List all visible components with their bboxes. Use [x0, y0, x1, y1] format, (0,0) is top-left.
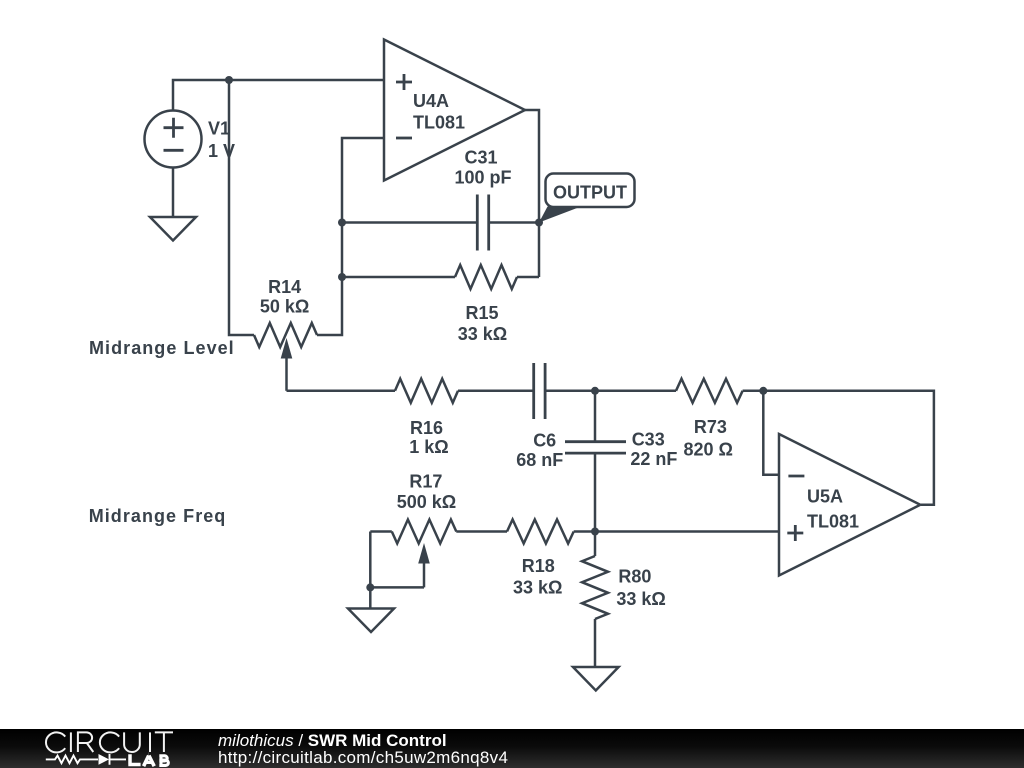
wire [594, 391, 597, 441]
label R80 value [616, 566, 665, 609]
logo resistor squiggle [46, 756, 98, 764]
svg-text:R16: R16 [410, 418, 443, 438]
ground [348, 609, 394, 633]
svg-text:R17: R17 [409, 472, 442, 492]
label C31 value [454, 148, 511, 188]
label Midrange Freq [89, 506, 227, 526]
wire [369, 587, 372, 608]
label R15 value [458, 303, 507, 344]
wire [763, 391, 778, 475]
svg-text:OUTPUT: OUTPUT [553, 183, 627, 203]
label U5A TL081 [807, 487, 859, 532]
wire [342, 221, 476, 224]
label C33 value [630, 429, 677, 469]
label R18 value [513, 556, 562, 598]
wire [743, 391, 934, 505]
svg-text:33 kΩ: 33 kΩ [616, 589, 665, 609]
logo CircuitLab [44, 729, 234, 768]
resistor R73 [676, 379, 743, 403]
svg-text:50 kΩ: 50 kΩ [260, 296, 309, 316]
wire [525, 110, 539, 277]
wire [287, 390, 396, 393]
svg-text:V1: V1 [208, 119, 230, 139]
svg-text:C33: C33 [632, 429, 665, 449]
logo word CIRCUIT [46, 732, 173, 752]
capacitor C33 [565, 442, 626, 453]
svg-text:33 kΩ: 33 kΩ [458, 324, 507, 344]
label R14 value [260, 277, 309, 317]
svg-text:68 nF: 68 nF [516, 450, 563, 470]
wire [456, 530, 507, 533]
ground [573, 667, 619, 691]
wire [229, 80, 254, 335]
svg-text:500 kΩ: 500 kΩ [397, 492, 456, 512]
label V1 value [208, 119, 235, 161]
wire [489, 221, 539, 224]
node junction [338, 219, 346, 227]
label C6 value [516, 431, 563, 470]
svg-text:U5A: U5A [807, 487, 843, 507]
svg-text:R14: R14 [268, 277, 301, 297]
label U4A TL081 [413, 91, 465, 133]
svg-text:100 pF: 100 pF [454, 168, 511, 188]
node junction [338, 273, 346, 281]
node junction at V+ wire [225, 76, 233, 84]
svg-text:R18: R18 [522, 556, 555, 576]
svg-text:TL081: TL081 [807, 512, 859, 532]
op-amp U5A [779, 434, 920, 576]
potentiometer R17 [392, 520, 457, 588]
svg-text:1 V: 1 V [208, 141, 235, 161]
svg-text:Midrange Freq: Midrange Freq [89, 506, 227, 526]
wire [595, 530, 778, 533]
svg-text:22 nF: 22 nF [630, 449, 677, 469]
svg-text:C6: C6 [533, 431, 556, 451]
svg-text:Midrange Level: Midrange Level [89, 338, 235, 358]
resistor R18 [507, 520, 595, 544]
logo word LAB [128, 754, 168, 766]
resistor R16 [395, 379, 533, 403]
svg-text:TL081: TL081 [413, 113, 465, 133]
svg-text:R80: R80 [618, 566, 651, 586]
ground [150, 217, 196, 241]
svg-text:C31: C31 [464, 148, 497, 168]
label R17 value [397, 472, 456, 513]
capacitor C31 [477, 195, 488, 251]
capacitor C6 [534, 363, 545, 419]
wire [173, 80, 384, 111]
svg-text:R15: R15 [465, 303, 498, 323]
wire [370, 530, 392, 533]
svg-text:820 Ω: 820 Ω [683, 439, 732, 459]
node junction [759, 387, 767, 395]
svg-text:33 kΩ: 33 kΩ [513, 577, 562, 597]
label R73 value [683, 417, 732, 459]
wire [172, 168, 175, 218]
op-amp U4A [384, 40, 525, 181]
label Midrange Level [89, 338, 235, 358]
resistor R80 [582, 532, 608, 668]
svg-text:1 kΩ: 1 kΩ [409, 437, 448, 457]
label R16 value [409, 418, 448, 457]
wire [317, 138, 384, 335]
wire [594, 454, 597, 531]
footer bar [0, 729, 1024, 768]
node junction [591, 528, 599, 536]
wire [546, 390, 676, 393]
resistor R15 [342, 265, 539, 289]
logo diode [99, 754, 110, 765]
node OUTPUT junction [535, 219, 543, 227]
footer credit text [218, 732, 508, 766]
node junction [591, 387, 599, 395]
wire [370, 532, 424, 588]
svg-text:R73: R73 [694, 417, 727, 437]
potentiometer R14 [254, 323, 317, 391]
voltage source V1 [145, 111, 202, 168]
svg-text:U4A: U4A [413, 91, 449, 111]
node OUTPUT flag [539, 174, 635, 223]
node junction [366, 583, 374, 591]
